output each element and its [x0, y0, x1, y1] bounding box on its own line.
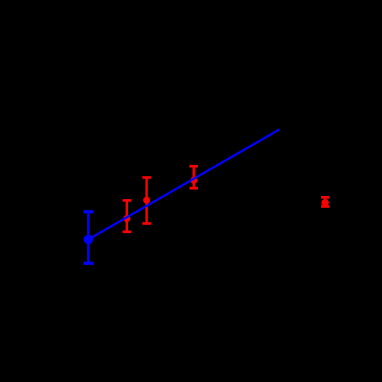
- red error bar 3 (x=193.7): [189, 166, 198, 188]
- red error bar 4 (x=325.1, isolated point at right): [321, 197, 329, 206]
- blue data point: [84, 235, 93, 244]
- red data point 3: [190, 177, 197, 184]
- red data point 1: [123, 215, 130, 222]
- blue error bar (x=88.3): [83, 212, 93, 264]
- blue fit line: [88, 130, 279, 240]
- red error bar 2 (x=146.6): [142, 178, 151, 224]
- red data point 2: [143, 197, 150, 204]
- red data point 4: [321, 199, 328, 206]
- red error bar 1 (x=126.8): [123, 200, 132, 231]
